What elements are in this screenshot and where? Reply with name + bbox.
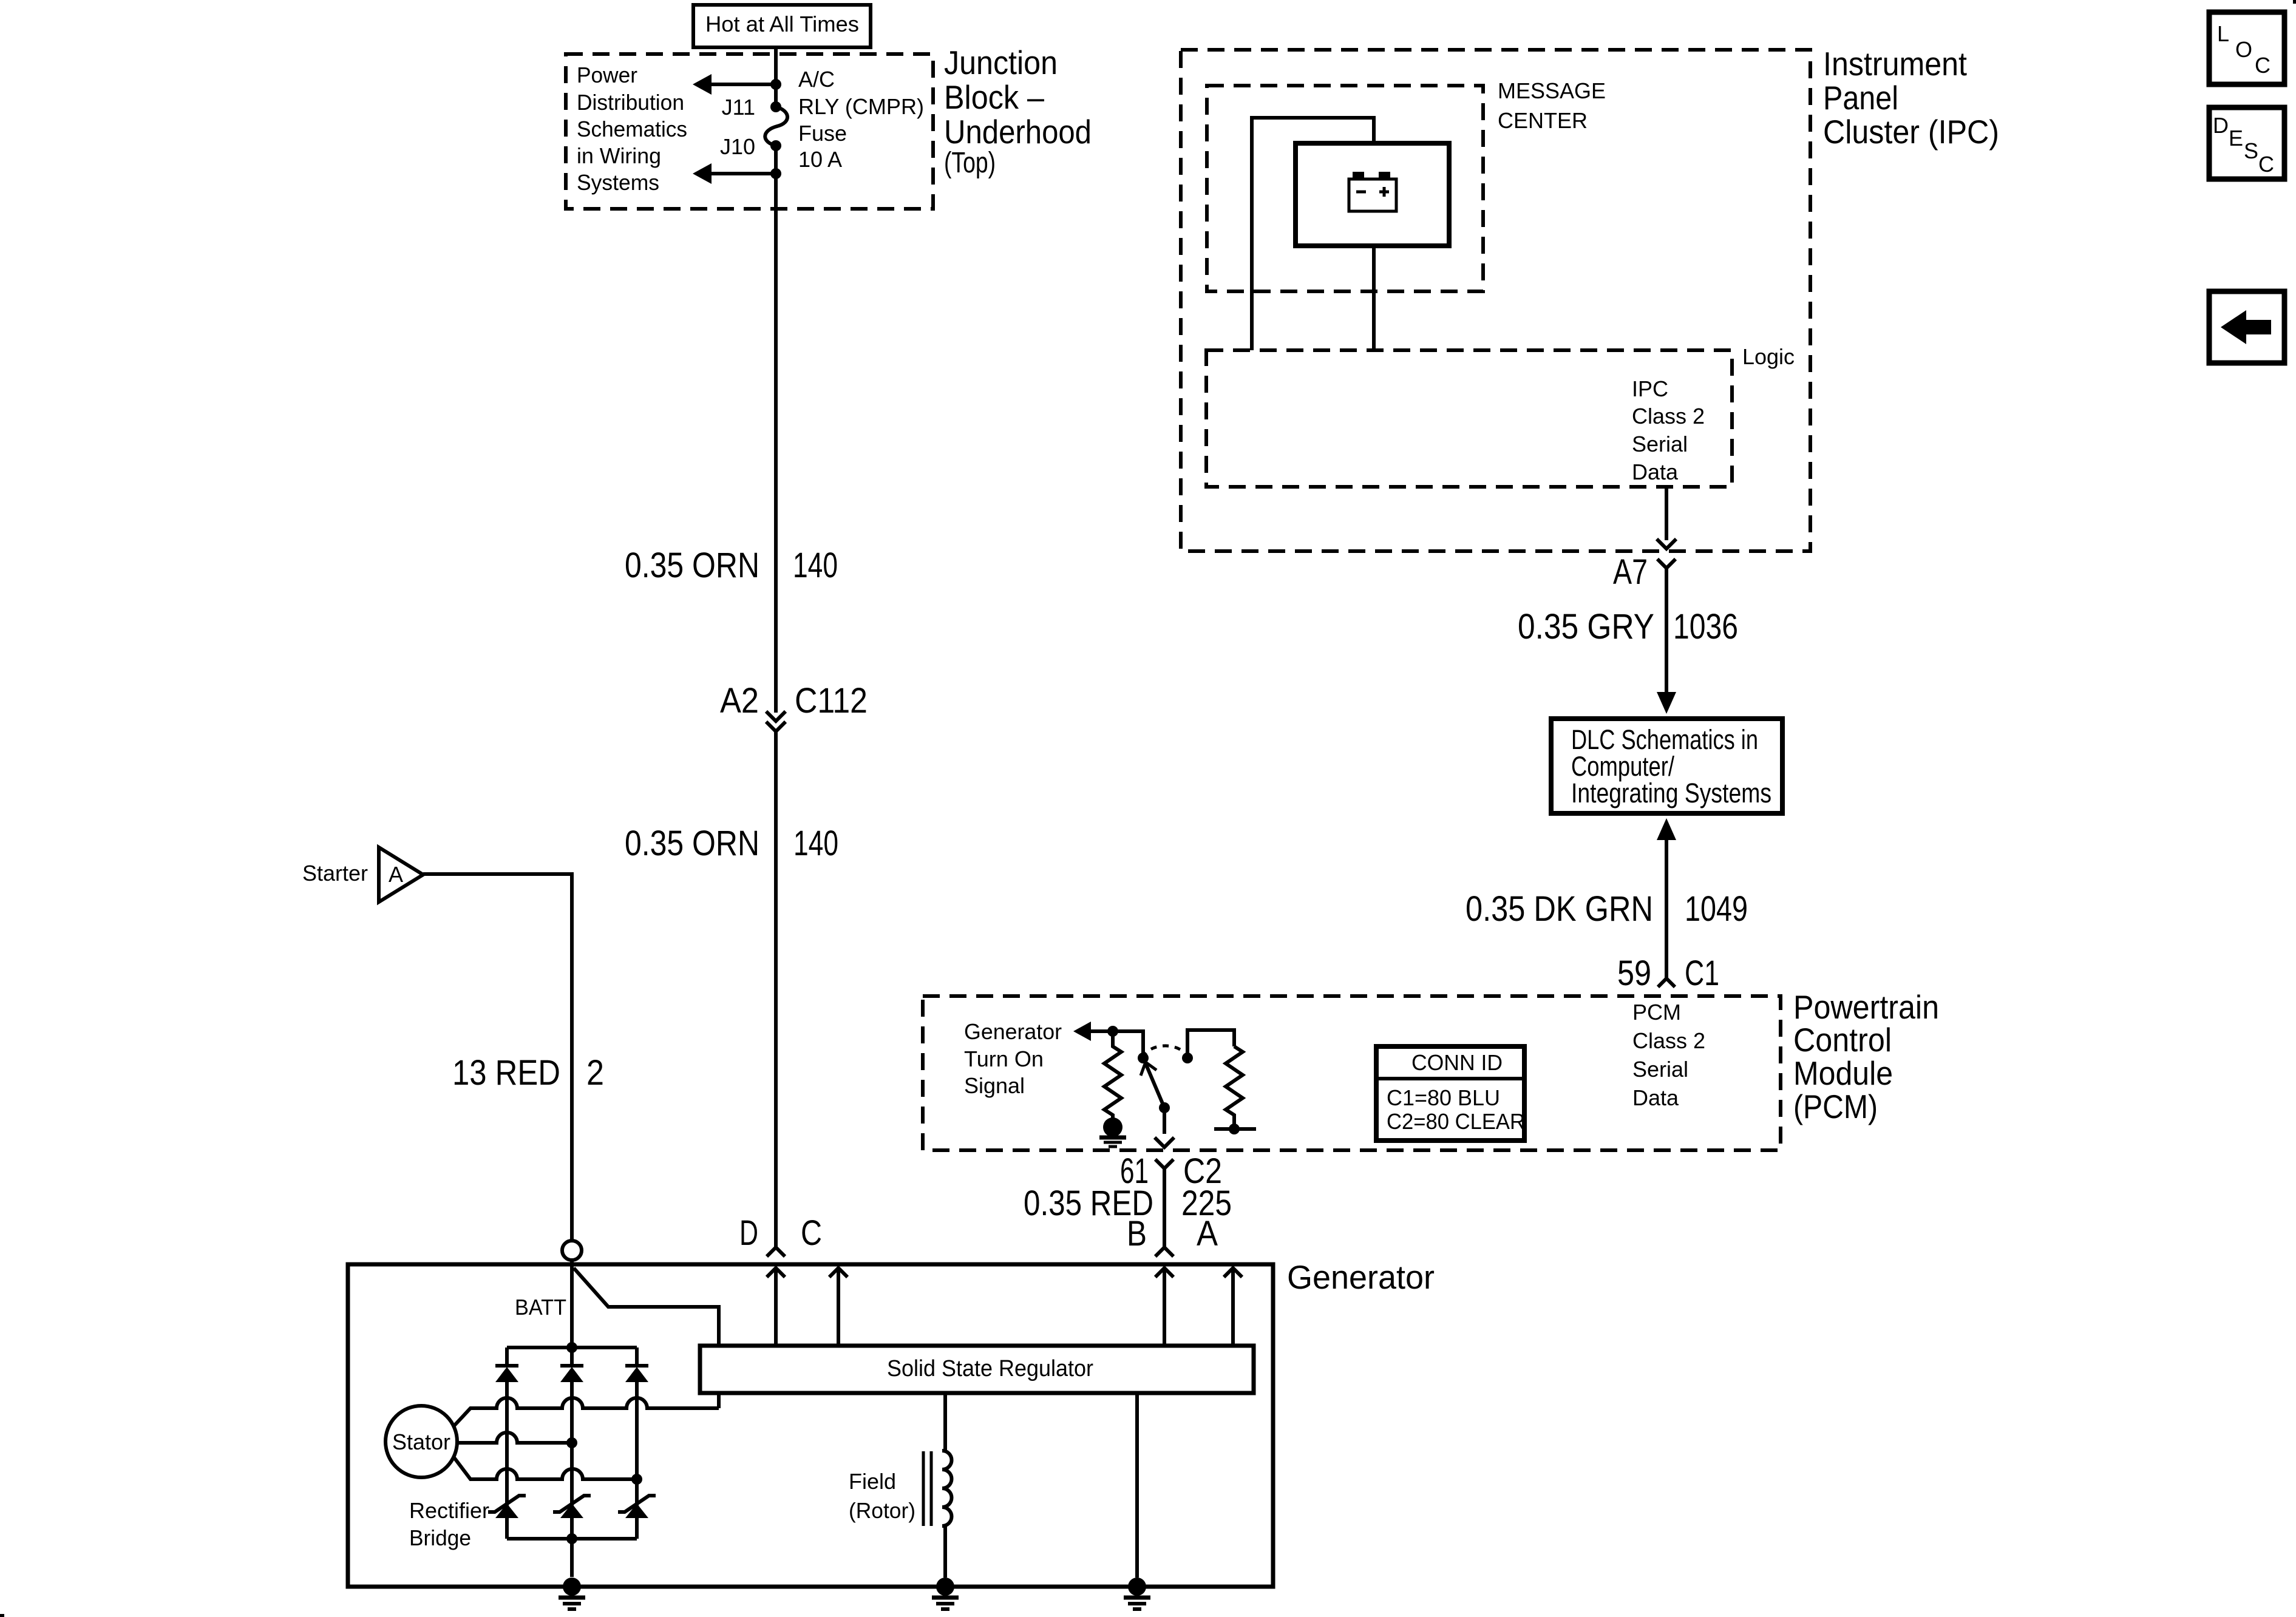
svg-text:C1: C1 bbox=[1685, 954, 1719, 993]
logic dashed box bbox=[1206, 350, 1732, 487]
node: BATT to rail bbox=[566, 1342, 577, 1353]
IPC dashed box bbox=[1181, 50, 1810, 551]
svg-text:Class 2: Class 2 bbox=[1632, 1028, 1705, 1053]
svg-text:140: 140 bbox=[793, 546, 838, 585]
back arrow nav box bbox=[2209, 291, 2284, 363]
rectifier column 1 bbox=[505, 1347, 509, 1539]
generator box bbox=[348, 1264, 1273, 1587]
wire: message center loop bbox=[1252, 118, 1374, 350]
node: lower tap bbox=[770, 168, 781, 179]
wire label 0.35 ORN 140 (lower) bbox=[625, 824, 838, 863]
svg-text:BATT: BATT bbox=[515, 1295, 566, 1320]
wire label 0.35 ORN 140 (upper) bbox=[625, 546, 838, 585]
svg-text:A: A bbox=[1197, 1214, 1218, 1253]
svg-text:C1=80 BLU: C1=80 BLU bbox=[1387, 1085, 1500, 1110]
svg-text:Field: Field bbox=[849, 1469, 896, 1494]
wire: right contact to resistor R2 bbox=[1187, 1030, 1234, 1058]
svg-text:CENTER: CENTER bbox=[1498, 108, 1588, 133]
wire: regulator feed to phase rail bbox=[717, 1393, 721, 1408]
svg-text:RLY (CMPR): RLY (CMPR) bbox=[798, 94, 924, 119]
stator phase 2 wire bbox=[457, 1432, 572, 1443]
stator phase 3 wire bbox=[453, 1457, 637, 1479]
ground G2 (field) bbox=[932, 1578, 959, 1609]
svg-text:Signal: Signal bbox=[964, 1073, 1025, 1098]
svg-text:Integrating Systems: Integrating Systems bbox=[1571, 778, 1771, 808]
svg-text:Logic: Logic bbox=[1742, 344, 1795, 369]
svg-text:(Rotor): (Rotor) bbox=[849, 1498, 915, 1523]
svg-text:in Wiring: in Wiring bbox=[577, 143, 661, 168]
svg-text:Fuse: Fuse bbox=[798, 121, 847, 146]
connector D/C at generator bbox=[739, 1213, 822, 1256]
connector A7 bbox=[1613, 539, 1676, 592]
switch pivot node bbox=[1138, 1053, 1149, 1063]
stator phase 1 wire (to BATT rail) bbox=[453, 1398, 719, 1426]
svg-text:0.35 GRY: 0.35 GRY bbox=[1518, 607, 1654, 646]
wire: battery box to logic bbox=[1372, 246, 1376, 350]
ground G4 (PCM internal) bbox=[1099, 1117, 1126, 1147]
node: phase 3 to column 3 bbox=[631, 1474, 642, 1485]
IPC title bbox=[1823, 45, 1999, 151]
svg-text:IPC: IPC bbox=[1632, 376, 1668, 401]
diode D6 bottom (avalanche) col3 bbox=[618, 1496, 656, 1518]
svg-text:Solid State Regulator: Solid State Regulator bbox=[887, 1356, 1093, 1381]
svg-text:Powertrain: Powertrain bbox=[1793, 988, 1939, 1026]
svg-text:0.35 DK GRN: 0.35 DK GRN bbox=[1466, 889, 1653, 929]
svg-text:Block –: Block – bbox=[944, 78, 1044, 116]
wire: BATT diagonal to regulator feed bbox=[574, 1268, 719, 1345]
svg-text:Module: Module bbox=[1793, 1054, 1893, 1092]
svg-text:0.35 ORN: 0.35 ORN bbox=[625, 824, 759, 863]
svg-text:A7: A7 bbox=[1613, 552, 1648, 592]
switch arm with arrowhead bbox=[1141, 1062, 1164, 1108]
node: R2 bottom bbox=[1229, 1124, 1240, 1134]
rectifier column 2 bbox=[570, 1347, 574, 1577]
svg-text:E: E bbox=[2229, 126, 2243, 151]
BATT output terminal circle bbox=[562, 1241, 582, 1260]
wire: below fuse down to C112 bbox=[774, 146, 778, 713]
svg-text:(PCM): (PCM) bbox=[1793, 1088, 1878, 1125]
hot at all times box bbox=[693, 5, 871, 47]
svg-text:0.35 ORN: 0.35 ORN bbox=[625, 546, 759, 585]
CONN ID table bbox=[1376, 1046, 1525, 1141]
junction block internal text bbox=[577, 63, 687, 195]
fuse pin labels bbox=[720, 95, 755, 159]
wire: switch to C2 connector bbox=[1163, 1108, 1166, 1134]
diode D2 top bbox=[560, 1366, 583, 1382]
wire: arrow to power distribution (top) bbox=[707, 83, 776, 86]
svg-text:Class 2: Class 2 bbox=[1632, 404, 1705, 429]
node: bottom rail center bbox=[566, 1533, 577, 1544]
svg-text:S: S bbox=[2244, 138, 2258, 163]
R2 bottom bar bbox=[1214, 1127, 1256, 1131]
wire: regulator ground leg bbox=[1135, 1393, 1139, 1578]
svg-text:J11: J11 bbox=[722, 95, 755, 120]
svg-text:13 RED: 13 RED bbox=[452, 1053, 560, 1093]
svg-text:Serial: Serial bbox=[1632, 432, 1688, 456]
wire label 13 RED 2 bbox=[452, 1053, 604, 1093]
svg-text:D: D bbox=[2213, 113, 2229, 138]
connector B/A labels and halves bbox=[1024, 1151, 1232, 1256]
node: resistor tap bbox=[1107, 1026, 1118, 1037]
switch arm node bbox=[1159, 1102, 1170, 1113]
svg-text:A2: A2 bbox=[720, 681, 759, 720]
ground G3 (regulator) bbox=[1124, 1578, 1150, 1609]
svg-text:Stator: Stator bbox=[392, 1429, 450, 1454]
svg-text:Junction: Junction bbox=[944, 44, 1058, 81]
svg-text:Control: Control bbox=[1793, 1021, 1892, 1059]
svg-text:MESSAGE: MESSAGE bbox=[1498, 78, 1606, 103]
svg-text:Systems: Systems bbox=[577, 170, 659, 195]
svg-text:Instrument: Instrument bbox=[1823, 45, 1967, 83]
svg-text:Distribution: Distribution bbox=[577, 90, 684, 115]
svg-text:C112: C112 bbox=[795, 681, 868, 720]
svg-text:2: 2 bbox=[586, 1053, 604, 1093]
svg-text:Cluster (IPC): Cluster (IPC) bbox=[1823, 113, 1999, 151]
svg-text:59: 59 bbox=[1617, 954, 1651, 993]
svg-text:PCM: PCM bbox=[1632, 1000, 1681, 1025]
wire: BATT vertical into rectifier bbox=[570, 1260, 574, 1347]
wire: A7 to DLC with arrow down bbox=[1657, 569, 1676, 714]
fuse J11-J10 10A bbox=[765, 107, 787, 146]
wire: hot feed vertical bbox=[774, 47, 778, 107]
svg-text:Data: Data bbox=[1632, 1085, 1679, 1110]
svg-text:Starter: Starter bbox=[302, 861, 368, 886]
node J10 bbox=[770, 140, 781, 151]
wire: C112 to generator bbox=[774, 731, 778, 1247]
svg-text:L: L bbox=[2217, 21, 2229, 46]
node: A/C RLY tap bbox=[770, 79, 781, 90]
svg-text:C: C bbox=[801, 1213, 822, 1253]
resistor R1 bbox=[1104, 1031, 1121, 1119]
rectifier column 3 bbox=[635, 1347, 639, 1539]
rectifier bridge label bbox=[409, 1498, 489, 1550]
node: phase 2 to column 2 bbox=[566, 1437, 577, 1448]
svg-text:O: O bbox=[2235, 37, 2252, 62]
svg-text:1036: 1036 bbox=[1673, 607, 1738, 646]
fuse name labels bbox=[798, 67, 924, 172]
arrow out of PCM (chevron down) bbox=[1155, 1137, 1174, 1147]
connector 59/C1 bbox=[1617, 954, 1719, 993]
stator circle bbox=[385, 1406, 457, 1477]
ground G1 (rectifier) bbox=[559, 1578, 585, 1609]
message center label bbox=[1498, 78, 1606, 133]
svg-text:D: D bbox=[739, 1213, 758, 1253]
junction block dashed box bbox=[566, 54, 933, 209]
rectifier bottom rail bbox=[507, 1537, 637, 1541]
svg-text:Bridge: Bridge bbox=[409, 1525, 471, 1550]
resistor R2 bbox=[1226, 1046, 1243, 1129]
svg-text:Serial: Serial bbox=[1632, 1057, 1688, 1082]
wire: starter to battery terminal bbox=[423, 874, 572, 1241]
rectifier top rail bbox=[507, 1346, 637, 1349]
svg-text:Generator: Generator bbox=[964, 1019, 1062, 1044]
svg-text:10 A: 10 A bbox=[798, 147, 842, 172]
connector C112 bbox=[720, 681, 868, 731]
solid state regulator box bbox=[700, 1346, 1254, 1393]
field rotor coil bbox=[849, 1393, 952, 1578]
svg-text:C2=80 CLEAR: C2=80 CLEAR bbox=[1387, 1109, 1525, 1134]
diode D1 top bbox=[495, 1366, 518, 1382]
wire: arrow to power distribution (bottom) bbox=[707, 172, 776, 175]
svg-text:CONN ID: CONN ID bbox=[1411, 1050, 1503, 1075]
page corner mark bottom-left bbox=[0, 1614, 4, 1617]
DLC schematics box bbox=[1551, 719, 1782, 813]
svg-text:C: C bbox=[2255, 53, 2271, 78]
diode D5 bottom (avalanche) col2 bbox=[553, 1496, 591, 1518]
DESC nav box bbox=[2209, 107, 2284, 179]
svg-text:Power: Power bbox=[577, 63, 637, 87]
diode D4 bottom (avalanche) col1 bbox=[488, 1496, 526, 1518]
starter triangle A bbox=[302, 847, 423, 902]
svg-text:Schematics: Schematics bbox=[577, 117, 687, 141]
wire label 0.35 DK GRN 1049 bbox=[1466, 889, 1748, 929]
battery symbol bbox=[1349, 172, 1396, 211]
message center dashed box bbox=[1207, 86, 1483, 291]
svg-text:(Top): (Top) bbox=[944, 147, 996, 179]
svg-text:J10: J10 bbox=[720, 134, 755, 159]
svg-text:Data: Data bbox=[1632, 459, 1679, 484]
PCM title bbox=[1793, 988, 1939, 1125]
node J11 bbox=[770, 101, 781, 112]
switch dashed arc bbox=[1143, 1046, 1187, 1058]
wire: PCM to DLC with arrow up bbox=[1657, 818, 1676, 978]
generator turn on signal label bbox=[964, 1019, 1062, 1098]
LOC nav box bbox=[2209, 12, 2284, 84]
svg-text:Hot at All Times: Hot at All Times bbox=[705, 12, 859, 36]
page corner mark top-right bbox=[2293, 0, 2296, 4]
switch right contact node bbox=[1182, 1053, 1193, 1063]
generator input arrows (chevron up) bbox=[767, 1268, 1242, 1346]
svg-text:A: A bbox=[389, 862, 403, 887]
wire: logic to A7 bbox=[1665, 487, 1668, 540]
wire label 0.35 GRY 1036 bbox=[1518, 607, 1738, 646]
svg-text:Rectifier: Rectifier bbox=[409, 1498, 489, 1523]
wire: turn-on signal with arrow bbox=[1073, 1022, 1143, 1058]
svg-text:Generator: Generator bbox=[1287, 1258, 1435, 1296]
IPC class 2 serial data label bbox=[1632, 376, 1705, 484]
svg-text:Turn On: Turn On bbox=[964, 1046, 1044, 1071]
svg-text:Panel: Panel bbox=[1823, 79, 1898, 117]
diode D3 top bbox=[625, 1366, 648, 1382]
svg-text:Underhood: Underhood bbox=[944, 113, 1092, 151]
PCM dashed box bbox=[923, 996, 1781, 1150]
svg-text:C: C bbox=[2258, 152, 2274, 177]
svg-text:A/C: A/C bbox=[798, 67, 835, 92]
battery telltale box bbox=[1296, 143, 1449, 246]
svg-text:B: B bbox=[1127, 1214, 1147, 1253]
svg-text:1049: 1049 bbox=[1685, 889, 1748, 929]
junction block label bbox=[944, 44, 1092, 179]
svg-text:140: 140 bbox=[793, 824, 838, 863]
PCM class 2 serial data label bbox=[1632, 1000, 1705, 1110]
